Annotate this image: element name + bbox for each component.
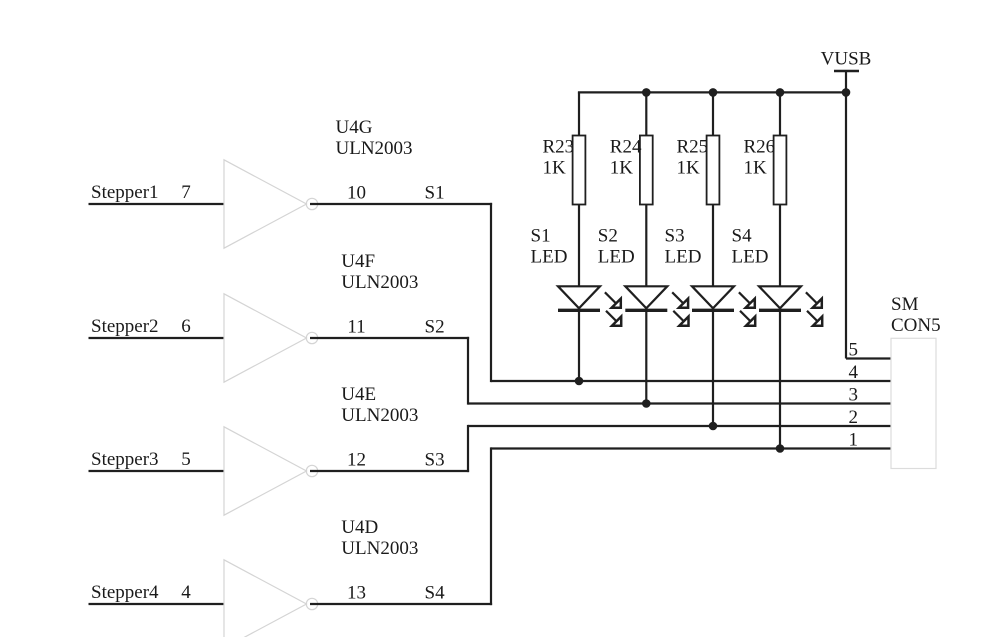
node S3 label xyxy=(425,449,445,470)
buffer U4G output bubble xyxy=(306,198,317,209)
svg-text:11: 11 xyxy=(347,316,365,337)
pin 12 (output of U4E) xyxy=(347,449,366,470)
resistor R24 body xyxy=(640,136,653,205)
buffer U4F output bubble xyxy=(306,332,317,343)
wire resistor R24 to LED S2 xyxy=(645,205,647,287)
LED S2 light arrows xyxy=(672,292,688,325)
pin 3 (connector) xyxy=(849,385,859,406)
label U4G ULN2003 xyxy=(336,117,413,159)
label U4F ULN2003 xyxy=(341,251,418,293)
svg-text:12: 12 xyxy=(347,449,366,470)
wire LED S1 to output net xyxy=(578,310,580,381)
pin 11 (output of U4F) xyxy=(347,316,365,337)
node S2 label xyxy=(425,316,445,337)
connector CON5 body xyxy=(891,338,936,468)
label S4 LED xyxy=(732,226,769,268)
svg-text:3: 3 xyxy=(849,385,859,406)
svg-text:S4: S4 xyxy=(732,226,753,247)
node Stepper1 label xyxy=(91,182,159,203)
buffer U4D output bubble xyxy=(306,598,317,609)
label U4E ULN2003 xyxy=(341,384,418,426)
pin 5 (connector) xyxy=(849,340,859,361)
label R24 1K xyxy=(610,137,642,179)
wire LED S3 to output net xyxy=(712,310,714,426)
LED S3 cathode bar xyxy=(692,309,734,312)
LED S3 diode triangle xyxy=(692,286,734,308)
junction S4 net xyxy=(776,444,785,453)
junction VUSB rail / pin5 drop xyxy=(842,88,851,97)
svg-text:S2: S2 xyxy=(425,316,445,337)
svg-text:4: 4 xyxy=(181,582,191,603)
wire resistor R25 to LED S3 xyxy=(712,205,714,287)
svg-text:R24: R24 xyxy=(610,137,642,158)
wire resistor R26 to LED S4 xyxy=(779,205,781,287)
svg-text:1K: 1K xyxy=(543,158,567,179)
LED S4 cathode bar xyxy=(759,309,801,312)
pin 5 (input of U4E) xyxy=(181,449,191,470)
net label VUSB xyxy=(821,49,872,70)
svg-text:1K: 1K xyxy=(744,158,768,179)
svg-text:13: 13 xyxy=(347,582,366,603)
LED S4 diode triangle xyxy=(759,286,801,308)
resistor R26 body xyxy=(774,136,787,205)
label R23 1K xyxy=(543,137,575,179)
svg-text:S2: S2 xyxy=(598,226,618,247)
LED S4 light arrows xyxy=(806,292,822,325)
svg-text:U4F: U4F xyxy=(341,251,375,272)
wire connector pin 5 xyxy=(846,357,891,359)
wire VUSB rail down to connector pin 5 xyxy=(845,92,847,358)
label R26 1K xyxy=(744,137,776,179)
svg-text:5: 5 xyxy=(181,449,191,470)
wire input Stepper2 xyxy=(89,337,225,339)
pin 7 (input of U4G) xyxy=(181,182,191,203)
wire output S3 vertical xyxy=(467,425,469,472)
junction rail / R26 xyxy=(776,88,785,97)
svg-text:S1: S1 xyxy=(531,226,551,247)
wire rail to resistor R24 xyxy=(645,92,647,135)
junction S3 net xyxy=(709,422,718,431)
wire output S1 horizontal xyxy=(310,203,492,205)
LED S3 light arrows xyxy=(739,292,755,325)
junction S1 net xyxy=(575,377,584,386)
junction rail / R24 xyxy=(642,88,651,97)
wire rail to resistor R26 xyxy=(779,92,781,135)
svg-text:10: 10 xyxy=(347,182,366,203)
svg-text:SM: SM xyxy=(891,294,919,315)
wire output S2 horizontal xyxy=(310,337,469,339)
svg-text:LED: LED xyxy=(732,247,769,268)
node Stepper3 label xyxy=(91,449,159,470)
svg-text:R25: R25 xyxy=(677,137,709,158)
svg-text:U4D: U4D xyxy=(341,517,378,538)
svg-text:1K: 1K xyxy=(610,158,634,179)
svg-text:ULN2003: ULN2003 xyxy=(336,138,413,159)
svg-text:Stepper3: Stepper3 xyxy=(91,449,159,470)
svg-text:6: 6 xyxy=(181,316,191,337)
svg-text:1K: 1K xyxy=(677,158,701,179)
LED S1 cathode bar xyxy=(558,309,600,312)
node S1 label xyxy=(425,182,445,203)
svg-text:Stepper1: Stepper1 xyxy=(91,182,159,203)
node Stepper2 label xyxy=(91,316,159,337)
wire rail to resistor R25 xyxy=(712,92,714,135)
svg-text:LED: LED xyxy=(665,247,702,268)
svg-text:ULN2003: ULN2003 xyxy=(341,538,418,559)
pin 10 (output of U4G) xyxy=(347,182,366,203)
pin 1 (connector) xyxy=(849,430,859,451)
svg-text:S3: S3 xyxy=(425,449,445,470)
svg-text:7: 7 xyxy=(181,182,191,203)
svg-text:2: 2 xyxy=(849,407,859,428)
svg-text:S1: S1 xyxy=(425,182,445,203)
svg-text:LED: LED xyxy=(531,247,568,268)
pin 2 (connector) xyxy=(849,407,859,428)
svg-text:1: 1 xyxy=(849,430,859,451)
wire LED S4 to output net xyxy=(779,310,781,448)
pin 4 (input of U4D) xyxy=(181,582,191,603)
wire LED S2 to output net xyxy=(645,310,647,403)
svg-text:LED: LED xyxy=(598,247,635,268)
node S4 label xyxy=(425,582,446,603)
svg-text:U4G: U4G xyxy=(336,117,373,138)
wire connector pin 1 xyxy=(491,447,891,449)
wire output S4 horizontal xyxy=(310,603,492,605)
wire VUSB bar to rail xyxy=(845,71,847,92)
label SM CON5 xyxy=(891,294,941,336)
LED S1 light arrows xyxy=(605,292,621,325)
pin 4 (connector) xyxy=(849,362,859,383)
svg-text:U4E: U4E xyxy=(341,384,376,405)
VUSB supply bar symbol xyxy=(834,70,859,73)
buffer U4E output bubble xyxy=(306,465,317,476)
wire top supply rail xyxy=(578,91,846,93)
wire output S1 vertical xyxy=(490,203,492,382)
LED S2 cathode bar xyxy=(625,309,667,312)
label S1 LED xyxy=(531,226,568,268)
buffer U4F triangle xyxy=(224,294,307,382)
svg-text:5: 5 xyxy=(849,340,859,361)
LED S1 diode triangle xyxy=(558,286,600,308)
label S3 LED xyxy=(665,226,702,268)
label S2 LED xyxy=(598,226,635,268)
svg-text:ULN2003: ULN2003 xyxy=(341,272,418,293)
LED S2 diode triangle xyxy=(625,286,667,308)
pin 6 (input of U4F) xyxy=(181,316,191,337)
wire input Stepper3 xyxy=(89,470,225,472)
wire output S4 vertical xyxy=(490,447,492,605)
svg-text:R23: R23 xyxy=(543,137,575,158)
wire input Stepper4 xyxy=(89,603,225,605)
label R25 1K xyxy=(677,137,709,179)
svg-text:VUSB: VUSB xyxy=(821,49,872,70)
pin 13 (output of U4D) xyxy=(347,582,366,603)
wire connector pin 4 xyxy=(491,380,891,382)
wire resistor R23 to LED S1 xyxy=(578,205,580,287)
wire input Stepper1 xyxy=(89,203,225,205)
junction rail / R25 xyxy=(709,88,718,97)
svg-text:4: 4 xyxy=(849,362,859,383)
svg-text:Stepper4: Stepper4 xyxy=(91,582,159,603)
svg-text:ULN2003: ULN2003 xyxy=(341,405,418,426)
resistor R23 body xyxy=(573,136,586,205)
buffer U4E triangle xyxy=(224,427,307,515)
label U4D ULN2003 xyxy=(341,517,418,559)
svg-text:S4: S4 xyxy=(425,582,446,603)
wire output S2 vertical xyxy=(467,337,469,405)
junction S2 net xyxy=(642,399,651,408)
wire output S3 horizontal xyxy=(310,470,469,472)
svg-text:CON5: CON5 xyxy=(891,315,941,336)
node Stepper4 label xyxy=(91,582,159,603)
wire connector pin 3 xyxy=(468,402,891,404)
wire connector pin 2 xyxy=(468,425,891,427)
svg-text:S3: S3 xyxy=(665,226,685,247)
resistor R25 body xyxy=(707,136,720,205)
svg-text:R26: R26 xyxy=(744,137,776,158)
buffer U4G triangle xyxy=(224,160,307,248)
svg-text:Stepper2: Stepper2 xyxy=(91,316,159,337)
wire rail to resistor R23 xyxy=(578,92,580,135)
buffer U4D triangle xyxy=(224,560,307,637)
